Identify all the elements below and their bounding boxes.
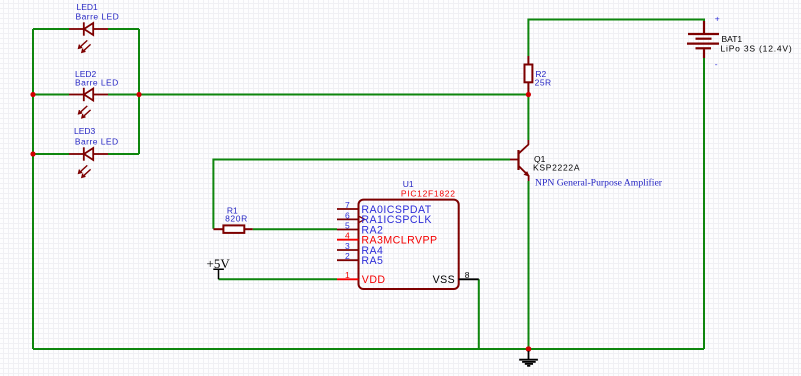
- battery BAT1: [687, 21, 719, 58]
- wire LED3 row: [33, 153, 139, 155]
- svg-text:KSP2222A: KSP2222A: [533, 163, 580, 173]
- junction node collector: [526, 92, 531, 97]
- svg-text:RA5: RA5: [361, 255, 383, 267]
- pin 2 RA5: [337, 259, 359, 261]
- wire LED1 row: [33, 28, 139, 30]
- svg-text:LED3: LED3: [74, 126, 96, 136]
- pin 1 VDD: [337, 278, 359, 280]
- wire R1 to base: [213, 160, 510, 229]
- svg-text:LED1: LED1: [77, 2, 99, 12]
- wire R1 to RA2: [253, 228, 337, 230]
- wire top rail: [528, 20, 704, 57]
- IC U1 body: [359, 200, 459, 289]
- svg-text:25R: 25R: [535, 78, 552, 88]
- svg-text:1: 1: [345, 270, 350, 280]
- transistor Q1: [510, 140, 529, 181]
- wire +5V to VDD: [219, 278, 338, 280]
- svg-text:820R: 820R: [225, 214, 248, 224]
- wire node to collector: [527, 95, 529, 141]
- svg-text:4: 4: [345, 231, 350, 241]
- resistor R1: [213, 225, 252, 233]
- wire LED2 row: [33, 94, 139, 96]
- svg-text:6: 6: [345, 210, 350, 220]
- wire VSS down: [478, 279, 480, 349]
- svg-text:Barre LED: Barre LED: [75, 137, 119, 147]
- svg-text:VDD: VDD: [362, 274, 386, 286]
- svg-text:BAT1: BAT1: [722, 34, 743, 44]
- junction node LED2 left: [30, 92, 35, 97]
- pin 3 RA4: [337, 249, 359, 251]
- wire battery negative down: [703, 57, 705, 349]
- svg-text:2: 2: [345, 251, 350, 261]
- svg-text:LiPo 3S (12.4V): LiPo 3S (12.4V): [721, 44, 793, 54]
- pin 6 RA1ICSPCLK: [337, 218, 359, 220]
- wire LED right vertical: [138, 29, 140, 154]
- svg-text:7: 7: [345, 200, 350, 210]
- pin 7 RA0ICSPDAT: [337, 208, 359, 210]
- svg-text:8: 8: [465, 270, 470, 280]
- LED D2 symbol: [69, 88, 108, 118]
- pin 5 RA2: [337, 229, 359, 231]
- wire left vertical bus: [32, 29, 34, 349]
- junction node LED3 left: [30, 151, 35, 156]
- ground symbol: [519, 351, 538, 366]
- pin 8 VSS: [459, 278, 479, 280]
- junction node LED2 right: [136, 92, 141, 97]
- svg-text:+: +: [715, 14, 720, 24]
- wire bottom rail: [33, 348, 704, 350]
- resistor R2: [525, 56, 533, 93]
- wire main horizontal to R2/Q1 node: [139, 94, 528, 96]
- svg-text:VSS: VSS: [433, 274, 456, 286]
- pin 4 RA3MCLRVPP: [337, 239, 359, 241]
- junction node ground: [526, 346, 532, 352]
- svg-text:Barre LED: Barre LED: [76, 12, 120, 22]
- svg-text:Barre LED: Barre LED: [75, 78, 119, 88]
- wire emitter down: [528, 181, 530, 349]
- svg-text:NPN General-Purpose Amplifier: NPN General-Purpose Amplifier: [535, 177, 663, 188]
- svg-text:PIC12F1822: PIC12F1822: [401, 188, 456, 198]
- svg-text:-: -: [715, 59, 718, 69]
- svg-text:3: 3: [345, 241, 350, 251]
- LED D3 symbol: [69, 147, 108, 177]
- LED D1 symbol: [69, 22, 108, 52]
- svg-text:5: 5: [345, 220, 350, 230]
